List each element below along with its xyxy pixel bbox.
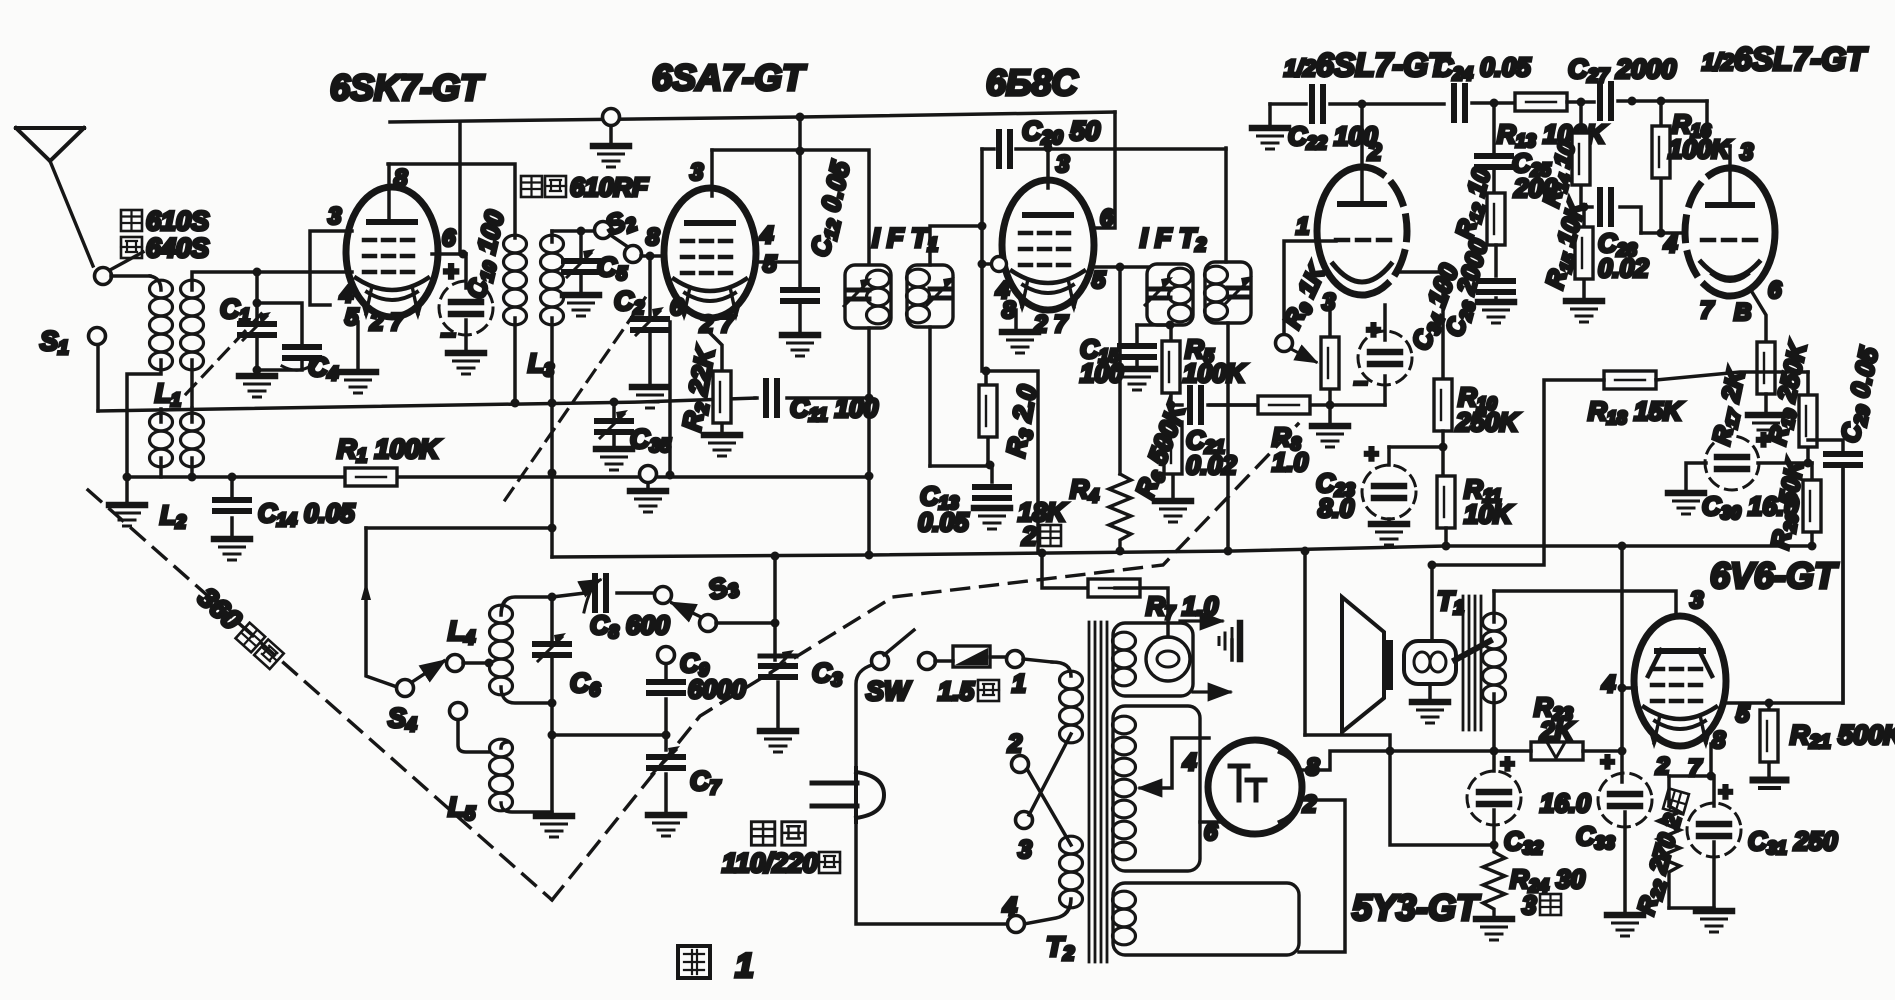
- ground under C26: [1478, 302, 1514, 323]
- T1 primary winding: [1483, 591, 1506, 751]
- ground under terminal: [593, 146, 629, 167]
- tube V6 5Y3-GT: [1208, 740, 1303, 834]
- label RF coil brand: [521, 172, 649, 202]
- pin 3 lead V5: [1728, 146, 1732, 205]
- ground at heater: [1219, 623, 1240, 660]
- junction R1 bus c: [666, 471, 675, 480]
- resistor R18: [1604, 371, 1656, 389]
- junction screen: [459, 250, 468, 259]
- grid cap of V3: [978, 257, 1007, 272]
- svg-text:8: 8: [646, 224, 660, 251]
- wire grid junction to plate bus: [986, 371, 1038, 553]
- ground under C7: [648, 815, 684, 836]
- coil L5: [490, 739, 553, 812]
- resistor R16: [1652, 101, 1670, 233]
- junction bus 5Y3: [1301, 547, 1310, 556]
- T2 core: [1089, 622, 1107, 962]
- svg-text:C20 50: C20 50: [1022, 116, 1100, 149]
- svg-text:C31 250: C31 250: [1748, 826, 1838, 858]
- pin 3 lead V2: [710, 150, 714, 196]
- capacitor C23 electrolytic: [1362, 441, 1416, 522]
- svg-text:R1 100K: R1 100K: [337, 434, 442, 467]
- arrow on osc feed: [361, 582, 371, 600]
- junction bus R11: [1442, 542, 1451, 551]
- wire R18 right to R19: [1656, 372, 1808, 380]
- 5V winding box: [1113, 883, 1300, 955]
- svg-text:3: 3: [1690, 587, 1704, 614]
- wire S3 to C3: [716, 621, 775, 625]
- svg-text:2: 2: [1302, 791, 1317, 818]
- wire SW to fuse: [935, 659, 953, 663]
- svg-text:2: 2: [1007, 730, 1022, 758]
- svg-text:3: 3: [690, 159, 704, 186]
- svg-text:C10 100: C10 100: [461, 207, 512, 302]
- svg-text:4: 4: [1601, 671, 1615, 698]
- dashed gang link right leg: [552, 424, 1298, 900]
- svg-text:C4: C4: [308, 352, 339, 385]
- svg-text:6: 6: [442, 225, 456, 252]
- resistor R17: [1757, 342, 1775, 412]
- svg-text:T2: T2: [1046, 931, 1074, 965]
- junction bus IFT1: [865, 551, 874, 560]
- svg-text:0.05: 0.05: [918, 507, 969, 537]
- wire C3 vertical: [773, 556, 777, 660]
- power plug: [812, 768, 884, 822]
- coil L4: [490, 597, 552, 703]
- ground under R15: [1566, 301, 1602, 322]
- svg-text:6V6-GT: 6V6-GT: [1710, 555, 1839, 596]
- svg-text:2K: 2K: [1539, 716, 1575, 746]
- svg-text:1: 1: [735, 947, 754, 985]
- svg-text:7: 7: [1700, 297, 1715, 324]
- svg-text:1: 1: [1012, 670, 1026, 698]
- svg-text:B: B: [1734, 299, 1751, 326]
- svg-text:1/26SL7-GT: 1/26SL7-GT: [1702, 41, 1868, 77]
- svg-text:6: 6: [1204, 819, 1218, 846]
- capacitor C7: [649, 735, 683, 812]
- svg-text:+: +: [1756, 427, 1770, 454]
- wire top bus down to screen: [458, 122, 462, 254]
- svg-text:1.0: 1.0: [1272, 447, 1309, 477]
- svg-text:250K: 250K: [1455, 407, 1520, 437]
- dashed link to C1: [186, 312, 263, 394]
- svg-text:C1: C1: [220, 294, 250, 327]
- junction speaker line: [1428, 561, 1437, 570]
- switch S4: [397, 655, 464, 697]
- label R24 watt: [1522, 890, 1561, 920]
- svg-text:C14 0.05: C14 0.05: [258, 498, 355, 530]
- junction bus R4: [1116, 547, 1125, 556]
- svg-text:8.0: 8.0: [1318, 493, 1355, 523]
- wire S2 to V2 pin8: [641, 254, 662, 258]
- svg-text:C35: C35: [630, 424, 671, 457]
- ground under L5: [536, 816, 572, 837]
- tube V3 6B8C: [1002, 180, 1094, 313]
- ground at C30: [1668, 493, 1704, 514]
- caption figure 1: [678, 946, 754, 985]
- svg-text:8: 8: [1002, 297, 1016, 324]
- svg-text:C33: C33: [1576, 821, 1615, 853]
- svg-text:1: 1: [1296, 213, 1309, 240]
- ground under R17: [1748, 415, 1784, 436]
- ground under C15: [1119, 369, 1155, 390]
- wire 5Y3 pin6: [1200, 820, 1222, 824]
- svg-text:S3: S3: [705, 568, 743, 608]
- resistor R19: [1799, 372, 1817, 463]
- pin 8 lead V1: [387, 164, 391, 222]
- switch SW: [872, 630, 936, 670]
- wire R4 feed down: [1118, 267, 1122, 474]
- svg-text:1/26SL7-GT: 1/26SL7-GT: [1284, 47, 1450, 83]
- wire C20 right to IFT2: [1224, 148, 1228, 262]
- svg-text:SW: SW: [866, 676, 912, 706]
- junction osc top: [548, 524, 557, 533]
- dial lamp: [1146, 637, 1190, 681]
- label set brand: [121, 206, 209, 236]
- svg-text:8: 8: [394, 165, 408, 192]
- junction C11 IFT1: [865, 394, 874, 403]
- wire 5Y3 plate feed: [1303, 551, 1307, 735]
- label R22 vertical: [1633, 788, 1696, 918]
- svg-text:7: 7: [1688, 755, 1703, 782]
- junction R1 bus d: [865, 472, 874, 481]
- capacitor C22: [1270, 87, 1362, 121]
- wire C9 bottom to L5 line: [552, 733, 666, 737]
- wire IFT1 right bottom to C13: [930, 464, 990, 468]
- tube V7 6V6-GT: [1634, 616, 1726, 749]
- capacitor C1: [240, 272, 274, 368]
- capacitor C10 electrolytic: [439, 254, 493, 350]
- terminal C9: [658, 647, 675, 679]
- resistor R9 with arrow: [1291, 305, 1339, 405]
- wire S1 lower terminal down to AVC bus: [96, 345, 100, 411]
- wire grid V5: [1641, 231, 1686, 235]
- switch S2: [595, 222, 642, 263]
- wire V2 pin5: [754, 260, 798, 264]
- T2 primary lower coil: [1024, 836, 1083, 924]
- resistor R10: [1434, 379, 1452, 431]
- ground under C23: [1371, 524, 1407, 545]
- capacitor C31 electrolytic: [1687, 779, 1741, 908]
- ground under C2: [632, 387, 668, 408]
- wire IFT2 right bottom to bus: [1226, 323, 1230, 551]
- capacitor C30 electrolytic: [1686, 427, 1770, 490]
- wire pin5 V3 to IFT2: [1094, 265, 1149, 269]
- wire V5 cathode to R17: [1752, 292, 1766, 344]
- svg-text:6: 6: [1768, 277, 1782, 304]
- ground under C35: [596, 449, 632, 470]
- label AC: [751, 822, 805, 845]
- wire R18 left to speaker line: [1432, 380, 1604, 565]
- capacitor C4: [253, 299, 323, 375]
- svg-text:2 7: 2 7: [699, 311, 735, 338]
- label brand 2: [121, 233, 209, 263]
- svg-text:L5: L5: [448, 792, 476, 825]
- wire R8 pot line: [1208, 403, 1385, 407]
- antenna: [16, 128, 93, 266]
- capacitor C26: [1479, 281, 1513, 300]
- coil L1 secondary: [181, 272, 256, 408]
- junction L3 sec: [548, 399, 557, 408]
- IFT1 right can: [907, 265, 956, 327]
- svg-text:C2: C2: [614, 286, 645, 319]
- svg-text:R22 270 2: R22 270 2: [1633, 811, 1689, 919]
- ground at R8 junction: [1312, 405, 1348, 447]
- resistor R22 zigzag: [1658, 776, 1680, 908]
- mains loop wire: [856, 665, 1008, 924]
- terminal L5: [450, 703, 490, 753]
- svg-text:I F T1: I F T1: [872, 223, 938, 256]
- svg-text:6SK7-GT: 6SK7-GT: [330, 67, 485, 108]
- junction R1 bus b: [548, 469, 557, 478]
- junction V4 plate bus: [1358, 100, 1367, 109]
- junction C32 bottom: [1490, 841, 1499, 850]
- junction IFT1 right top wire: [978, 222, 987, 231]
- wire HV tap to 5Y3 pin4: [1158, 738, 1209, 788]
- ground under C10: [448, 353, 484, 374]
- wire L3 secondary bottom down: [550, 403, 554, 528]
- ground under C31: [1696, 911, 1732, 932]
- svg-text:100K: 100K: [1668, 134, 1732, 164]
- tube V1 6SK7-GT: [346, 187, 438, 320]
- junction cathode: [1707, 772, 1716, 781]
- capacitor C21: [1171, 388, 1262, 422]
- junction C32: [1490, 747, 1499, 756]
- label R4 watt: [1021, 521, 1061, 551]
- svg-text:C12 0.05: C12 0.05: [805, 158, 858, 260]
- wire bus down to C33: [1620, 546, 1624, 782]
- junction R10 C23: [1439, 443, 1448, 452]
- svg-text:100: 100: [1080, 358, 1124, 388]
- terminal 1: [1007, 651, 1053, 668]
- label gang 360: [192, 581, 288, 672]
- junction top bus at C12: [796, 113, 805, 122]
- svg-text:2 7: 2 7: [369, 309, 405, 336]
- svg-text:4: 4: [1002, 893, 1017, 921]
- junction C6 top: [548, 593, 557, 602]
- ground under R6: [1155, 501, 1191, 522]
- resistor R1: [127, 468, 869, 486]
- label fuse: [938, 676, 999, 706]
- wire grid line to C1 and tube: [255, 270, 352, 274]
- T2 primary upper coil: [1052, 662, 1083, 743]
- resistor R11: [1437, 476, 1455, 546]
- filament winding box: [1113, 623, 1194, 696]
- ground under V1: [340, 322, 376, 393]
- svg-text:C6: C6: [570, 668, 601, 701]
- capacitor C12: [783, 117, 817, 332]
- IFT2 left can: [1145, 264, 1193, 325]
- svg-text:L2: L2: [160, 500, 186, 532]
- svg-text:5: 5: [763, 251, 777, 278]
- svg-text:3: 3: [1056, 151, 1070, 178]
- svg-text:110/220: 110/220: [722, 848, 818, 878]
- wire pin2 to 5V winding: [1299, 800, 1345, 952]
- wire R19 bottom node: [1758, 461, 1812, 465]
- svg-text:C22 100: C22 100: [1288, 121, 1378, 153]
- junction L3 bottoms on AVC bus: [511, 399, 520, 408]
- svg-text:C24 0.05: C24 0.05: [1434, 52, 1531, 84]
- wire pin6 V3 to top bus corner: [1094, 112, 1115, 228]
- svg-text:5Y3-GT: 5Y3-GT: [1352, 887, 1481, 928]
- svg-text:S4: S4: [388, 703, 417, 736]
- wire V1 pins left: [310, 231, 352, 305]
- wire bus corner to V5 plate: [1707, 101, 1730, 146]
- junction R5 R6: [1167, 401, 1176, 410]
- wire pin8 B plus: [1302, 751, 1494, 770]
- wire V2 cathode down: [668, 322, 672, 475]
- wire V2 plate top to IFT1: [712, 150, 869, 262]
- junction R23: [1618, 747, 1627, 756]
- junction L5 line: [548, 731, 557, 740]
- tube V2 6SA7-GT: [664, 188, 756, 321]
- resistor R7: [1042, 553, 1140, 597]
- svg-text:R21 500K: R21 500K: [1790, 720, 1895, 753]
- svg-text:–: –: [1354, 369, 1367, 396]
- junction bus R20: [1808, 542, 1817, 551]
- wire V7 pin5 to C29: [1724, 470, 1843, 703]
- svg-text:+: +: [1600, 749, 1614, 776]
- svg-text:3: 3: [1740, 139, 1754, 166]
- wire IFT1 bottom to bus: [867, 477, 871, 555]
- capacitor C15: [1120, 325, 1154, 366]
- ground under speaker: [1412, 684, 1448, 723]
- terminal 3: [1016, 812, 1033, 829]
- wire V7 cathode pin8: [1709, 744, 1713, 776]
- dashed link to C2: [505, 298, 645, 500]
- junction L2 ground: [123, 473, 132, 482]
- svg-text:R6 500K: R6 500K: [1129, 397, 1193, 502]
- ground under L2: [109, 477, 145, 526]
- svg-text:0.02: 0.02: [1598, 253, 1649, 283]
- potentiometer R9 terminal: [1276, 241, 1337, 352]
- wire IFT1 left bottom down: [867, 328, 871, 476]
- capacitor C29: [1808, 440, 1860, 703]
- wire IFT2 left bottom: [1137, 323, 1171, 327]
- junction bus R7: [1038, 549, 1047, 558]
- resistor R20: [1803, 463, 1821, 546]
- wire V4 plate out to R10: [1400, 272, 1443, 381]
- svg-text:4: 4: [1182, 749, 1196, 776]
- wire plate to L3: [388, 164, 515, 238]
- svg-text:6Б8C: 6Б8C: [986, 62, 1079, 103]
- svg-text:6000: 6000: [688, 674, 746, 704]
- junction C20 plate: [1044, 144, 1053, 153]
- coil L2 secondary: [181, 408, 204, 477]
- terminal on top bus: [603, 109, 620, 144]
- IFT2 right can: [1205, 262, 1254, 323]
- svg-text:L1: L1: [155, 378, 181, 410]
- svg-text:R4: R4: [1070, 474, 1099, 506]
- capacitor C2: [633, 252, 667, 385]
- junction R16 top: [1657, 97, 1666, 106]
- capacitor C32 electrolytic: [1467, 751, 1521, 845]
- svg-text:+: +: [1718, 779, 1732, 806]
- ground under terminal 2: [630, 491, 666, 512]
- svg-text:L4: L4: [448, 616, 476, 649]
- resistor R24 zigzag: [1483, 845, 1505, 916]
- svg-text:6SA7-GT: 6SA7-GT: [652, 57, 807, 98]
- svg-text:C7: C7: [690, 766, 722, 799]
- wire speaker to R18 line: [1430, 565, 1434, 641]
- resistor R21: [1753, 703, 1786, 788]
- top bus wire: [390, 112, 1115, 122]
- resistor R13: [1515, 93, 1567, 111]
- wire IFT1 right top to grid line: [930, 226, 982, 265]
- ground under C33: [1607, 915, 1643, 936]
- svg-text:5: 5: [1736, 701, 1750, 728]
- wire cathode node: [1669, 776, 1714, 806]
- ground at C22: [1252, 104, 1288, 149]
- resistor R23: [1494, 742, 1622, 760]
- coil L2 primary: [150, 409, 173, 477]
- svg-text:4: 4: [1663, 231, 1677, 258]
- capacitor C24: [1454, 86, 1515, 120]
- B plus bus: [552, 546, 1812, 557]
- ground under C12: [782, 335, 818, 356]
- svg-text:610RF: 610RF: [570, 172, 649, 202]
- wire T1 top to V7 plate: [1494, 591, 1676, 612]
- svg-text:+: +: [1366, 317, 1380, 344]
- wire V1 screen to C10: [432, 252, 466, 256]
- junction: [253, 268, 262, 277]
- svg-text:5: 5: [1092, 267, 1106, 294]
- terminal 2: [1012, 756, 1029, 773]
- capacitor C5 trimmer: [564, 227, 598, 293]
- junction R21: [1765, 699, 1774, 708]
- resistor R8: [1258, 396, 1310, 414]
- svg-text:R18 15K: R18 15K: [1588, 396, 1684, 428]
- center tap arrow: [1140, 786, 1158, 789]
- resistor R12: [1487, 193, 1505, 276]
- pin 2 lead V4: [1360, 104, 1364, 204]
- svg-text:2: 2: [1021, 521, 1037, 551]
- junction C13: [986, 461, 995, 470]
- arrow heater bottom: [1193, 690, 1230, 693]
- svg-text:3: 3: [1018, 836, 1032, 864]
- HV winding box: [1113, 706, 1201, 871]
- resistor R14: [1572, 102, 1590, 207]
- capacitor C27: [1600, 84, 1707, 118]
- svg-text:10K: 10K: [1464, 499, 1514, 529]
- svg-text:C27 2000: C27 2000: [1568, 54, 1676, 87]
- capacitor C13: [975, 466, 1009, 498]
- svg-text:–: –: [441, 318, 455, 348]
- wire L3 top to S2: [552, 229, 595, 233]
- svg-text:C5: C5: [597, 252, 628, 285]
- coil L3 primary: [504, 235, 527, 402]
- junction R13 R14: [1577, 98, 1586, 107]
- capacitor C14: [215, 473, 249, 537]
- capacitor C9: [649, 682, 683, 735]
- svg-text:R7 1.0: R7 1.0: [1146, 591, 1219, 623]
- tube V5 half 6SL7: [1685, 168, 1775, 296]
- tube V4 half 6SL7: [1317, 167, 1407, 295]
- svg-text:100K: 100K: [1183, 358, 1247, 388]
- svg-text:C8 600: C8 600: [590, 610, 670, 642]
- ground under C3: [760, 731, 796, 752]
- svg-text:4: 4: [759, 222, 773, 249]
- junction C3: [771, 619, 780, 628]
- junction at C12 line: [796, 147, 805, 156]
- fuse 1.5A: [953, 646, 1006, 667]
- junction detector line: [1116, 263, 1125, 272]
- capacitor C28: [1581, 190, 1641, 233]
- resistor R2: [707, 330, 731, 432]
- svg-text:T1: T1: [1437, 586, 1464, 619]
- svg-text:3: 3: [328, 203, 342, 230]
- junction C24 R13: [1490, 99, 1499, 108]
